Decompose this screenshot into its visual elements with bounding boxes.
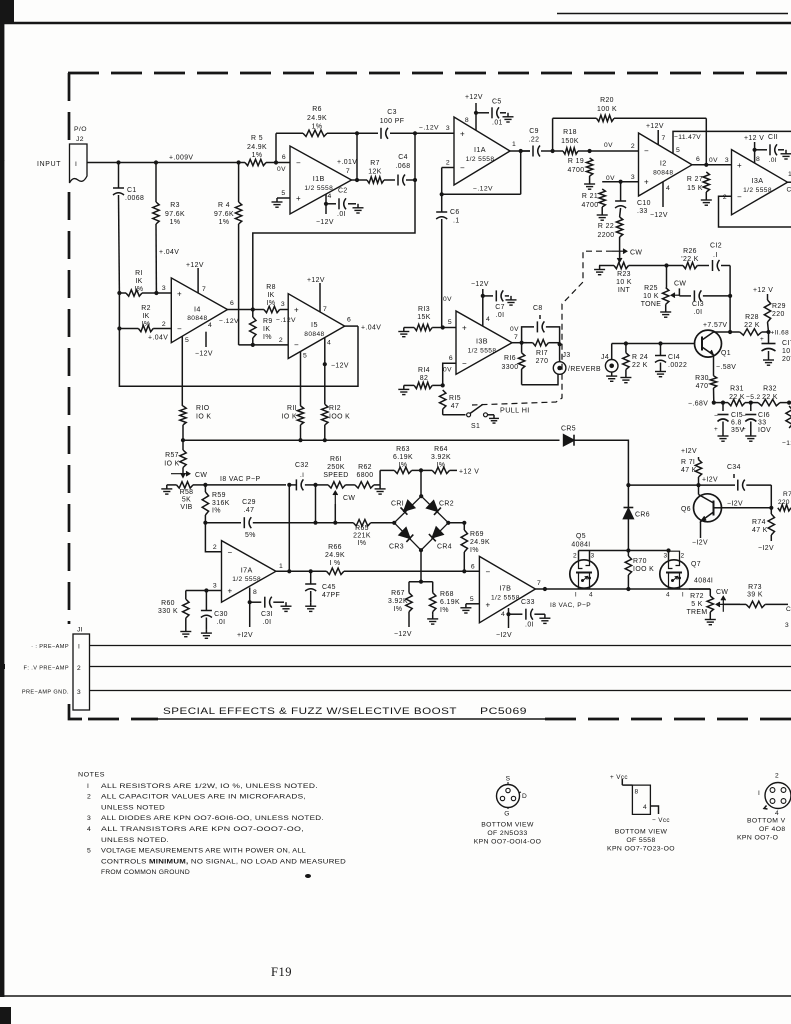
svg-text:2: 2 <box>573 553 577 560</box>
svg-text:1%: 1% <box>252 152 263 159</box>
svg-text:R29: R29 <box>772 303 786 310</box>
svg-text:IK: IK <box>263 326 270 333</box>
label -12V R67 <box>394 631 412 638</box>
wire R31 R32 <box>745 402 758 404</box>
node R18 out <box>588 149 592 153</box>
svg-text:+12V: +12V <box>186 262 204 269</box>
node C16 tap <box>749 401 753 405</box>
svg-text:G: G <box>504 811 510 818</box>
svg-text:1%: 1% <box>312 124 323 131</box>
svg-text:10 K: 10 K <box>616 279 632 286</box>
connector J2 <box>70 126 88 183</box>
resistor R27 <box>687 172 710 196</box>
ground C45 <box>305 602 316 611</box>
wire gate bus 2 <box>628 550 668 552</box>
label +.009V <box>169 155 193 162</box>
node R59 top <box>203 483 207 487</box>
label -.58V <box>716 364 736 371</box>
svg-text:I8 VAC P−P: I8 VAC P−P <box>220 476 260 483</box>
wire I7B pin4 <box>501 608 509 618</box>
ground C14 <box>655 368 666 377</box>
capacitor C15 <box>714 403 744 434</box>
ground R58 <box>161 485 172 494</box>
svg-text:1/2 5558: 1/2 5558 <box>232 576 261 583</box>
svg-text:1/2 5558: 1/2 5558 <box>304 185 333 192</box>
wire I5 out <box>345 317 358 327</box>
svg-text:−: − <box>737 193 742 202</box>
label -5.2 <box>746 394 761 401</box>
wire node line <box>183 439 560 441</box>
wire I5 feedback loop <box>119 326 358 386</box>
svg-text:−: − <box>460 164 465 173</box>
svg-text:−: − <box>462 359 467 368</box>
resistor R20 <box>553 97 707 122</box>
page top rule 2 <box>557 13 788 15</box>
svg-text:.0I: .0I <box>217 619 226 626</box>
svg-text:OF 4O8: OF 4O8 <box>759 826 786 833</box>
node R14 <box>441 383 445 387</box>
svg-text:+I2V: +I2V <box>681 448 697 455</box>
svg-text:+.01V: +.01V <box>337 159 357 166</box>
page top rule <box>0 22 791 25</box>
pot arrow R57 <box>171 471 207 479</box>
svg-text:R25: R25 <box>644 285 658 292</box>
pot arrow R23 CW <box>612 249 642 262</box>
wire link line <box>253 180 415 310</box>
svg-text:I%: I% <box>263 334 272 341</box>
border bottom solid under title <box>158 718 545 720</box>
bridge frame <box>394 496 448 550</box>
labels R25 <box>641 285 662 308</box>
label -12V I4 <box>195 351 213 358</box>
resistor R3 <box>153 163 185 294</box>
pot arrow R72 <box>716 589 740 612</box>
wire 18vac line <box>205 484 286 486</box>
wire C3 link <box>357 132 378 134</box>
node pin8 C5 <box>474 111 478 115</box>
svg-text:97.6K: 97.6K <box>214 211 234 218</box>
wire bridge bottom drop <box>420 550 422 582</box>
ground R72 <box>705 616 716 625</box>
svg-text:/REVERB: /REVERB <box>568 366 601 373</box>
svg-text:.0I: .0I <box>525 622 534 629</box>
svg-text:C33: C33 <box>521 599 535 606</box>
svg-text:3: 3 <box>663 553 667 560</box>
wire I1A feedback <box>442 151 521 194</box>
wire I7B pin5 <box>466 596 480 604</box>
svg-text:C5: C5 <box>492 99 502 106</box>
resistor R30 <box>695 375 717 403</box>
svg-text:R64: R64 <box>434 446 448 453</box>
svg-text:C32: C32 <box>295 462 309 469</box>
label -12V I3B <box>471 281 489 288</box>
wire C29 line mid <box>316 522 336 524</box>
capacitor C4 <box>395 154 415 186</box>
svg-text:24.9K: 24.9K <box>307 115 327 122</box>
resistor R64 <box>421 446 457 474</box>
label -12V R9 <box>276 317 296 324</box>
capacitor C33 <box>509 599 545 629</box>
note 4b <box>101 837 169 844</box>
wire C13 node drop <box>729 296 731 332</box>
node I5 pin4 <box>323 362 327 366</box>
svg-text:5: 5 <box>470 596 474 603</box>
svg-text:5K: 5K <box>182 497 191 504</box>
diode CR3 <box>389 528 413 551</box>
svg-text:.47: .47 <box>244 507 255 514</box>
notes smudge <box>305 874 311 878</box>
wire I1B out <box>346 168 367 180</box>
ground C11 <box>781 150 791 159</box>
note 5c <box>101 869 190 876</box>
svg-text:+12V: +12V <box>646 123 664 130</box>
node R3 tap <box>154 160 158 164</box>
svg-text:C45: C45 <box>322 584 336 591</box>
svg-text:UNLESS NOTED: UNLESS NOTED <box>101 804 165 811</box>
svg-text:IO K: IO K <box>196 414 211 421</box>
resistor R75 edge <box>778 491 791 511</box>
capacitor C9 <box>521 128 553 157</box>
wire R5 to I1B <box>266 162 290 164</box>
label -12V I1B <box>316 219 334 226</box>
svg-text:BOTTOM VIEW: BOTTOM VIEW <box>615 829 668 836</box>
svg-text:82: 82 <box>420 375 428 382</box>
resistor R19 <box>568 158 593 180</box>
svg-text:KPN OO7-7O23-OO: KPN OO7-7O23-OO <box>607 846 675 853</box>
wire I4 pin4 <box>206 322 212 347</box>
label +.04V pin2 <box>148 335 168 342</box>
svg-text:OF 2N5O33: OF 2N5O33 <box>487 830 527 837</box>
resistor R15 <box>440 390 461 415</box>
border bottom dashed right <box>545 718 791 721</box>
wire R16 to J3 sleeve <box>522 375 558 385</box>
svg-text:R 22: R 22 <box>598 223 614 230</box>
capacitor C8 loop <box>522 305 560 344</box>
node pin4 C33 <box>506 612 510 616</box>
capacitor C16 <box>742 403 771 434</box>
svg-text:4: 4 <box>775 810 779 817</box>
svg-text:.22: .22 <box>529 137 540 144</box>
svg-text:RII: RII <box>287 405 297 412</box>
resistor R6 <box>276 106 357 137</box>
svg-text:7: 7 <box>202 286 206 293</box>
svg-text:−: − <box>296 158 301 167</box>
svg-text:6: 6 <box>449 355 453 362</box>
label 18VAC out <box>550 602 591 609</box>
node pin4 C7 <box>481 294 485 298</box>
wire I5 pin7 <box>320 283 327 313</box>
svg-text:OF 5558: OF 5558 <box>626 837 655 844</box>
switch S1 <box>443 404 494 430</box>
wire C13 line <box>679 295 691 297</box>
svg-text:100 K: 100 K <box>597 106 617 113</box>
wire bridge top riser <box>420 470 422 496</box>
node R67 R68 <box>419 580 423 584</box>
page left edge bar <box>0 0 4 997</box>
svg-text:20V: 20V <box>782 356 791 363</box>
ground R23 <box>594 266 605 275</box>
svg-text:R23: R23 <box>617 271 631 278</box>
svg-text:J4: J4 <box>601 354 609 361</box>
wire I7A pin8 <box>250 588 257 603</box>
svg-text:.0I: .0I <box>769 157 778 164</box>
ground R13 <box>398 328 409 337</box>
svg-text:+I2V: +I2V <box>237 632 253 639</box>
label +11.68 <box>771 330 790 337</box>
resistor R9 <box>250 310 273 345</box>
node I1A fb <box>440 192 444 196</box>
svg-text:UNLESS NOTED.: UNLESS NOTED. <box>101 837 169 844</box>
svg-text:3: 3 <box>590 553 594 560</box>
svg-text:24.9K: 24.9K <box>247 144 267 151</box>
svg-text:I: I <box>78 644 80 651</box>
ground R24 <box>620 374 631 383</box>
svg-text:C10: C10 <box>637 200 651 207</box>
svg-text:4: 4 <box>328 193 332 200</box>
ground S1 <box>489 415 499 423</box>
svg-text:RI4: RI4 <box>418 367 430 374</box>
svg-text:I: I <box>75 161 77 168</box>
wire I1A pin2 <box>442 160 454 195</box>
svg-text:6: 6 <box>282 154 286 161</box>
wire I2 pin3 <box>621 174 639 182</box>
svg-text:R57: R57 <box>165 452 179 459</box>
capacitor C30 <box>201 591 228 630</box>
bottom view 2N5033 <box>474 776 542 846</box>
svg-text:RI5: RI5 <box>449 395 461 402</box>
op-amp I1A <box>454 117 510 185</box>
svg-text:470: 470 <box>696 383 709 390</box>
note 2a <box>87 794 306 801</box>
node R61 wiper tap <box>333 521 337 525</box>
resistor R4 <box>214 163 242 345</box>
svg-text:I%: I% <box>135 286 144 293</box>
node R70 bottom <box>626 587 630 591</box>
svg-text:316K: 316K <box>212 500 230 507</box>
wire R20 drop <box>705 118 707 165</box>
svg-text:−11.47V: −11.47V <box>674 134 701 141</box>
svg-text:97.6K: 97.6K <box>165 211 185 218</box>
svg-text:ALL CAPACITOR VALUES ARE I: ALL CAPACITOR VALUES ARE IN MICROFARADS, <box>101 794 306 801</box>
svg-text:R18: R18 <box>563 129 577 136</box>
svg-text:RIO: RIO <box>196 405 210 412</box>
svg-text:−12: −12 <box>782 440 791 447</box>
resistor R16 <box>502 343 525 385</box>
svg-text:1/2 5558: 1/2 5558 <box>743 187 772 194</box>
ground R19 <box>584 180 595 189</box>
svg-text:330 K: 330 K <box>158 608 178 615</box>
svg-text:−I2V: −I2V <box>727 501 743 508</box>
transistor Q7 <box>660 548 688 598</box>
node I4 out <box>251 307 255 311</box>
svg-text:4: 4 <box>208 322 212 329</box>
svg-text:47 K: 47 K <box>752 527 768 534</box>
label +12V R71 <box>681 448 697 455</box>
svg-text:C7: C7 <box>495 304 505 311</box>
node C3 out <box>413 131 417 135</box>
node R10 <box>181 438 185 442</box>
pot arrow R25 <box>671 280 686 297</box>
svg-text:0V: 0V <box>606 175 615 182</box>
svg-text:I%: I% <box>142 321 151 328</box>
node bridge top <box>419 494 423 498</box>
label edge C <box>785 606 791 629</box>
svg-text:2: 2 <box>446 160 450 167</box>
svg-text:6.19K: 6.19K <box>393 454 413 461</box>
node R24 tap <box>624 341 628 345</box>
node C4 out <box>413 178 417 182</box>
svg-text:+: + <box>742 426 746 433</box>
svg-text:−: − <box>486 567 491 576</box>
bottom view 5558 <box>607 774 675 853</box>
svg-text:+: + <box>760 336 764 343</box>
resistor R5 <box>245 135 267 166</box>
svg-text:R62: R62 <box>358 464 372 471</box>
svg-text:150K: 150K <box>561 138 579 145</box>
wire C12 drop <box>729 266 731 296</box>
capacitor C6 <box>436 194 459 327</box>
svg-text:80848: 80848 <box>304 331 324 338</box>
note 5b <box>101 858 346 865</box>
resistor R24 <box>623 344 648 374</box>
svg-text:R 7I: R 7I <box>681 459 695 466</box>
svg-text:ALL RESISTORS ARE 1/2W, IO: ALL RESISTORS ARE 1/2W, IO %, UNLESS NOT… <box>101 783 318 790</box>
svg-text:CII: CII <box>768 134 778 141</box>
wire pin8 down <box>249 602 251 627</box>
node R71 bottom <box>696 483 700 487</box>
svg-text:1%: 1% <box>170 219 181 226</box>
svg-text:R2: R2 <box>141 305 151 312</box>
label -11.47V <box>674 134 701 141</box>
wire C34 corner <box>770 485 772 508</box>
svg-text:−: − <box>714 413 719 420</box>
svg-text:+12 V: +12 V <box>753 287 773 294</box>
svg-text:S1: S1 <box>471 423 480 430</box>
svg-text:2: 2 <box>775 773 779 780</box>
svg-text:TONE: TONE <box>641 301 662 308</box>
svg-text:I: I <box>87 783 89 790</box>
node R74 top <box>769 506 773 510</box>
wire I5 pin4 <box>325 338 331 365</box>
wire Q6 emitter <box>700 522 702 539</box>
wire vert R6 node <box>356 133 358 180</box>
svg-text:12K: 12K <box>368 169 381 176</box>
capacitor C45 <box>305 571 340 602</box>
svg-text:6: 6 <box>471 564 475 571</box>
resistor R59 <box>202 485 230 523</box>
wire R25 drop <box>666 266 668 288</box>
svg-text:5: 5 <box>185 337 189 344</box>
svg-text:R60: R60 <box>161 600 175 607</box>
diode CR2 <box>427 501 454 515</box>
svg-text:22 K: 22 K <box>729 394 745 401</box>
svg-text:C8: C8 <box>533 305 543 312</box>
label -12V Q6 em <box>692 540 708 547</box>
capacitor C3 <box>380 109 415 139</box>
page number F19 <box>271 965 292 979</box>
resistor R18 <box>553 129 590 154</box>
resistor edge <box>782 406 791 447</box>
ground C2 <box>353 204 364 213</box>
svg-text:I%: I% <box>394 606 403 613</box>
svg-text:CR5: CR5 <box>561 426 576 433</box>
label +7.57V <box>703 322 727 329</box>
svg-text:PC5069: PC5069 <box>480 706 527 716</box>
notes title <box>78 772 105 779</box>
capacitor C10 <box>615 182 651 217</box>
svg-text:+: + <box>228 587 233 596</box>
node R4 tap <box>237 160 241 164</box>
svg-text:3: 3 <box>785 622 789 629</box>
svg-text:−12V: −12V <box>195 351 213 358</box>
svg-text:PRE−AMP GND.: PRE−AMP GND. <box>22 690 69 696</box>
wire I7A pin2 <box>205 523 221 552</box>
diode CR5 <box>561 426 576 446</box>
ground R21 <box>597 211 608 220</box>
svg-text:R 5: R 5 <box>251 135 263 142</box>
capacitor C13 <box>692 290 730 316</box>
page corner mark <box>0 0 14 22</box>
svg-text:R6I: R6I <box>330 456 342 463</box>
svg-text:I: I <box>682 592 684 599</box>
node I2 out <box>704 163 708 167</box>
diode CR1 <box>391 501 415 515</box>
svg-text:R7: R7 <box>783 491 791 498</box>
wire pin4 down <box>508 614 510 628</box>
label +.04V upper <box>159 249 179 256</box>
ground I7B pin5 <box>460 604 471 613</box>
resistor R12 <box>322 364 351 440</box>
wire Q6 base line <box>722 507 772 509</box>
resistor R71 <box>681 457 702 485</box>
svg-text:+.009V: +.009V <box>169 155 193 162</box>
svg-text:C4: C4 <box>398 154 408 161</box>
ground C30 <box>201 629 212 638</box>
svg-text:4: 4 <box>501 611 505 618</box>
svg-text:R 27: R 27 <box>687 176 703 183</box>
node I2 pin3 <box>619 180 623 184</box>
note 3 <box>87 815 324 822</box>
svg-text:I%: I% <box>440 607 449 614</box>
svg-text:ALL DIODES ARE KPN OO7-6OI: ALL DIODES ARE KPN OO7-6OI6-OO, UNLESS N… <box>101 815 324 822</box>
edge mark row2 <box>0 664 5 669</box>
svg-text:INT: INT <box>618 287 631 294</box>
svg-text:−: − <box>294 341 299 350</box>
edge tick <box>0 159 4 161</box>
svg-text:IO K: IO K <box>164 461 179 468</box>
svg-text:I2: I2 <box>660 159 667 168</box>
resistor R7 <box>367 160 384 183</box>
svg-text:.0I: .0I <box>694 309 703 316</box>
ground C17 <box>763 356 774 365</box>
resistor R1 <box>119 270 156 296</box>
connector J1 <box>73 627 90 711</box>
label 0V I2 out <box>709 157 718 164</box>
node C32r on C29 line <box>313 521 317 525</box>
node C1 tap <box>116 160 120 164</box>
svg-text:4084I: 4084I <box>571 542 590 549</box>
wire I3A pin2 fb <box>719 194 791 227</box>
svg-text:VIB: VIB <box>180 504 192 511</box>
svg-text:I7A: I7A <box>241 565 253 574</box>
svg-text:SPEED: SPEED <box>323 472 348 479</box>
ground C15 <box>718 432 729 441</box>
svg-text:22 K: 22 K <box>632 362 648 369</box>
svg-text:47: 47 <box>451 403 459 410</box>
node edge resistor <box>787 401 791 405</box>
node I1A out <box>519 149 523 153</box>
svg-text:6: 6 <box>347 317 351 324</box>
